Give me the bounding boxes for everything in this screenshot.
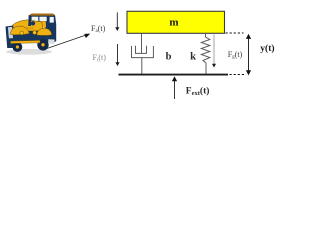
car running board xyxy=(11,40,41,43)
svg-text:Fg(t): Fg(t) xyxy=(228,50,243,60)
car roof navy xyxy=(29,14,55,17)
car roof top orange xyxy=(30,14,55,16)
svg-text:y(t): y(t) xyxy=(260,43,274,54)
car window pane 2 xyxy=(39,17,46,21)
wire: diagonal arrow from car to diagram xyxy=(44,34,90,50)
car clipart xyxy=(6,14,57,55)
damper cylinder cup xyxy=(132,46,154,58)
ground line xyxy=(119,74,229,76)
force arrow Fg (thin, along spring) xyxy=(212,35,216,68)
car hood seam xyxy=(16,28,34,29)
dashed reference line bottom xyxy=(230,74,245,76)
car front wheel xyxy=(13,42,23,52)
car window pane 1 xyxy=(32,17,39,21)
car lower chassis xyxy=(8,31,55,43)
car front grille assembly xyxy=(6,26,15,49)
car rear fender xyxy=(37,28,52,35)
car headlight left xyxy=(20,31,24,35)
car front fender xyxy=(10,26,29,35)
svg-text:b: b xyxy=(166,52,172,63)
spring k xyxy=(201,33,210,74)
damper lower rod xyxy=(141,58,143,75)
damper upper rod xyxy=(141,33,143,53)
car window pane 3 xyxy=(50,17,54,23)
dashed reference line top xyxy=(226,32,244,34)
car cowl lamp xyxy=(31,21,35,25)
displacement arrow y(t) double-headed xyxy=(246,34,251,76)
force arrow Fext xyxy=(172,76,177,99)
mass box m xyxy=(127,11,225,33)
car rear wheel xyxy=(37,39,48,50)
svg-text:Fi(t): Fi(t) xyxy=(93,53,107,63)
car hood xyxy=(13,20,43,31)
car cabin body xyxy=(29,15,57,42)
damper piston xyxy=(136,46,147,54)
svg-text:Fext(t): Fext(t) xyxy=(186,86,210,98)
car rear bumper xyxy=(48,39,54,44)
svg-text:Fa(t): Fa(t) xyxy=(91,24,106,34)
svg-text:m: m xyxy=(169,17,178,29)
force arrow Fi xyxy=(115,44,119,66)
force arrow Fa xyxy=(115,12,119,31)
car windshield pillar xyxy=(28,16,31,26)
car cowl yellow under windows xyxy=(31,21,46,27)
car headlight right xyxy=(33,31,37,35)
car ground shadow xyxy=(6,49,52,55)
svg-text:k: k xyxy=(190,52,196,63)
